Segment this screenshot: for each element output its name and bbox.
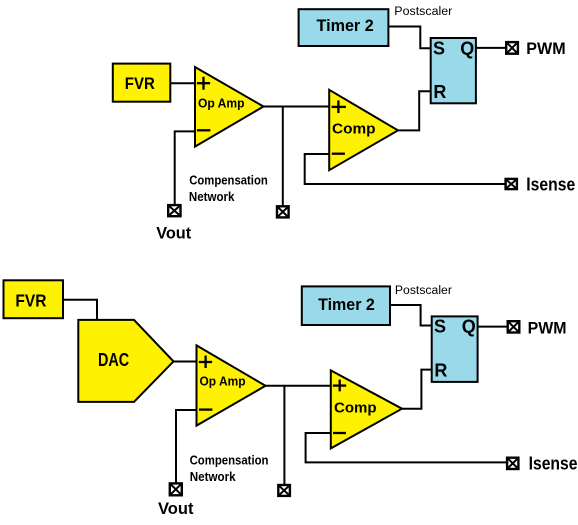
svg-text:Vout: Vout xyxy=(156,223,191,242)
wire FVR to op-amp + input xyxy=(171,82,197,84)
svg-text:Q: Q xyxy=(462,317,476,337)
op-amp U2 + input symbol xyxy=(199,356,212,369)
svg-text:R: R xyxy=(433,82,446,102)
svg-text:FVR: FVR xyxy=(15,290,46,310)
comparator + input symbol (top) xyxy=(332,100,346,113)
node compensation terminal (bottom) xyxy=(277,484,291,497)
svg-text:Network: Network xyxy=(189,189,235,204)
wire FVR to DAC xyxy=(61,300,97,321)
wire op-amp U2 output to comparator + input xyxy=(266,385,332,387)
node PWM terminal (top) xyxy=(505,41,519,55)
wire op-amp inverting input to Vout node xyxy=(175,131,196,205)
svg-text:Comp: Comp xyxy=(334,401,377,417)
svg-text:Comp: Comp xyxy=(332,122,376,138)
comparator - input symbol (top) xyxy=(332,153,345,155)
op-amp U1 - input symbol xyxy=(197,129,210,131)
wire comparator output to latch R input (bottom) xyxy=(402,370,432,409)
svg-text:PWM: PWM xyxy=(528,320,567,338)
node compensation terminal (top) xyxy=(276,205,290,219)
svg-text:Compensation: Compensation xyxy=(190,453,269,468)
svg-text:Isense: Isense xyxy=(529,453,578,473)
svg-text:R: R xyxy=(434,360,447,380)
wire op-amp output to comparator + input xyxy=(263,106,330,108)
svg-text:Network: Network xyxy=(190,469,236,484)
wire junction down to compensation terminal xyxy=(282,107,284,207)
label Compensation Network (bottom) xyxy=(190,453,269,485)
label Compensation Network (top) xyxy=(189,173,268,204)
svg-text:S: S xyxy=(433,38,445,58)
comparator - input symbol (bottom) xyxy=(333,432,346,434)
svg-text:Postscaler: Postscaler xyxy=(395,285,452,297)
wire latch Q output to PWM xyxy=(475,47,506,49)
svg-text:DAC: DAC xyxy=(98,349,129,370)
svg-text:Q: Q xyxy=(460,38,474,58)
DAC (bottom) xyxy=(78,320,173,402)
latch SR (bottom) xyxy=(432,316,478,382)
svg-text:Op Amp: Op Amp xyxy=(200,375,246,389)
svg-text:Timer 2: Timer 2 xyxy=(317,16,374,35)
comparator + input symbol (bottom) xyxy=(333,380,346,392)
wire op-amp U2 inverting input to Vout node xyxy=(176,410,198,483)
op-amp U1 (top) xyxy=(195,67,264,147)
svg-text:Vout: Vout xyxy=(158,499,194,518)
op-amp U1 + input symbol xyxy=(197,77,210,90)
svg-text:PWM: PWM xyxy=(526,40,565,58)
node Vout terminal (top) xyxy=(167,204,182,218)
op-amp U2 (bottom) xyxy=(197,345,266,425)
comparator Comp (bottom) xyxy=(331,370,402,448)
block Timer 2 (top) xyxy=(299,9,389,46)
node Isense terminal (top) xyxy=(504,178,518,191)
op-amp U2 - input symbol xyxy=(199,408,212,410)
block FVR (top) xyxy=(113,64,171,102)
wire DAC to op-amp + input xyxy=(173,361,198,363)
node Isense terminal (bottom) xyxy=(506,457,520,471)
block FVR (bottom) xyxy=(4,280,64,318)
svg-text:Compensation: Compensation xyxy=(189,173,268,188)
wire latch Q output to PWM (bottom) xyxy=(477,326,508,328)
comparator Comp (top) xyxy=(329,90,398,170)
block Timer 2 (bottom) xyxy=(302,286,390,325)
wire junction down to compensation terminal (bottom) xyxy=(283,386,285,485)
wire Timer 2 to latch S input xyxy=(388,27,431,49)
latch SR (top) xyxy=(431,38,476,103)
svg-text:Isense: Isense xyxy=(526,174,575,194)
svg-text:FVR: FVR xyxy=(125,74,155,93)
wire comparator inverting input to Isense (bottom) xyxy=(306,433,507,462)
node Vout terminal (bottom) xyxy=(169,482,183,496)
svg-text:Timer 2: Timer 2 xyxy=(318,295,375,314)
svg-text:S: S xyxy=(434,317,446,337)
wire Timer 2 to latch S input (bottom) xyxy=(390,305,432,326)
wire comparator output to latch R input xyxy=(398,91,431,130)
svg-text:Op Amp: Op Amp xyxy=(198,97,245,111)
svg-text:Postscaler: Postscaler xyxy=(394,6,452,18)
node PWM terminal (bottom) xyxy=(507,320,521,334)
wire comparator inverting input to Isense xyxy=(305,154,506,184)
